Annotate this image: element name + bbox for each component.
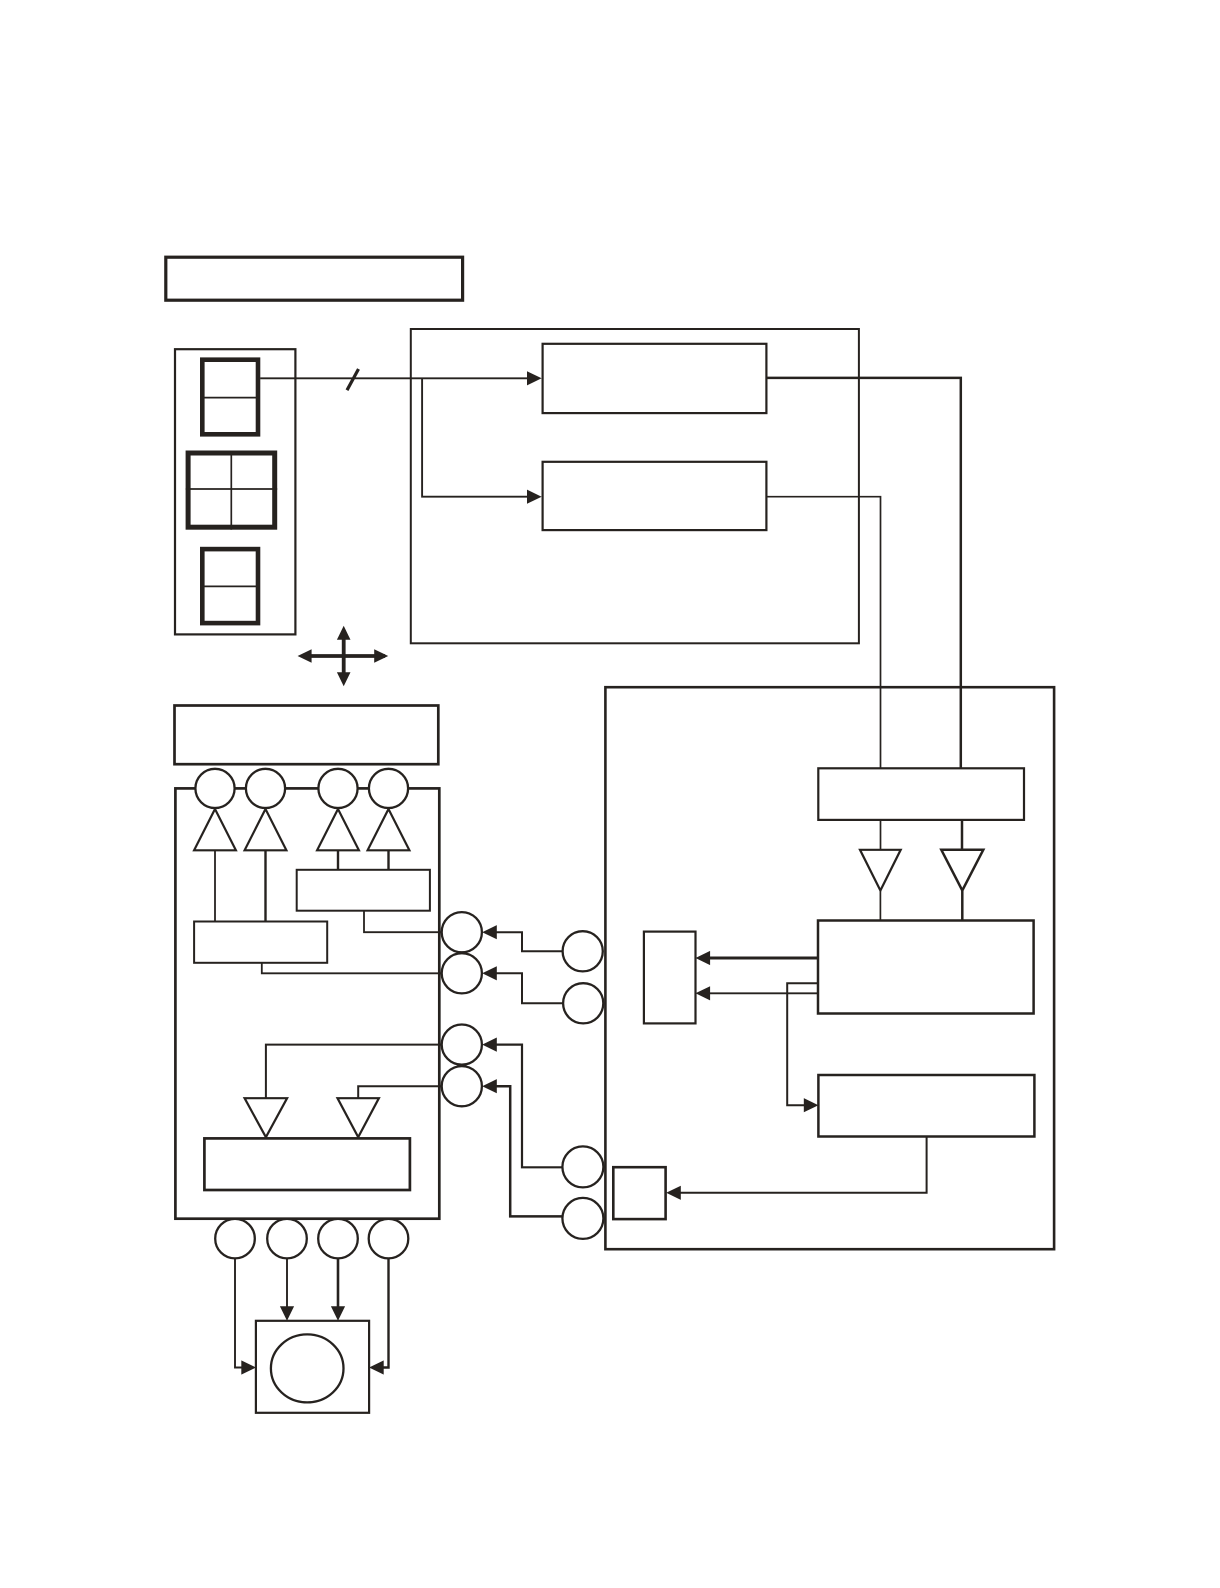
wire top rect to buffer L <box>880 820 882 850</box>
wire buffer R to middle rect <box>961 891 964 921</box>
right small rect <box>644 932 696 1024</box>
top port circle 3 <box>318 769 357 808</box>
arrowhead into lower rect <box>804 1098 819 1112</box>
thin wire middle rect to small rect <box>708 992 818 994</box>
connector wire port r3 to mid circle C <box>496 1045 563 1168</box>
inner register rect 2 <box>543 462 767 530</box>
mid circle D <box>562 1198 603 1239</box>
title box <box>166 257 463 300</box>
thick wire middle rect to small rect <box>708 957 818 960</box>
right port circle r1 <box>442 912 482 952</box>
connector wire port r4 to mid circle D <box>496 1086 563 1216</box>
mid circle C <box>562 1146 603 1187</box>
motor box <box>256 1321 369 1413</box>
buffer triangle R <box>941 850 983 891</box>
motor circle <box>271 1334 344 1402</box>
bus slash mark <box>347 369 359 390</box>
wire bottom circle2 down <box>286 1258 288 1307</box>
top port circle 4 <box>369 769 408 808</box>
right middle rect <box>818 921 1034 1014</box>
display unit 1 <box>202 360 258 435</box>
bottom port circle 4 <box>369 1219 409 1259</box>
top controller box <box>411 329 859 643</box>
feedback wire middle rect to lower rect <box>787 983 818 1105</box>
branch wire to rect 2 <box>422 378 528 496</box>
arrowhead into port r3 <box>482 1038 497 1052</box>
driver triangle 3 <box>317 809 359 850</box>
display unit 2 horizontal divider <box>186 488 278 490</box>
arrowhead into bottom small box <box>666 1186 681 1200</box>
bus wire display to top box <box>260 377 528 379</box>
top port circle 1 <box>195 769 234 808</box>
rect A mid-left latch <box>194 922 327 963</box>
wire triangle3 to rect B <box>337 850 339 870</box>
top port circle 2 <box>246 769 285 808</box>
wire rectA to port circle r2 <box>262 963 442 974</box>
arrowhead into small rect upper <box>696 951 711 965</box>
wire rectB to port circle r1 <box>364 911 442 933</box>
buffer triangle L <box>860 850 901 891</box>
arrowhead into motor left <box>241 1360 256 1374</box>
driver triangle 1 <box>194 809 236 850</box>
inner register rect 1 <box>543 344 767 413</box>
driver triangle 2 <box>245 809 287 850</box>
display unit 3 <box>202 549 258 623</box>
bottom port circle 2 <box>267 1219 307 1259</box>
wire rect1 to right block <box>766 378 960 768</box>
arrowhead circle2 into motor top <box>280 1306 294 1321</box>
pan 4-way arrow <box>302 630 385 682</box>
wire buffer L to middle rect <box>879 891 881 921</box>
lower driver triangle R <box>338 1098 379 1137</box>
wire triangle4 to rect B <box>387 850 389 870</box>
wire triangle1 to rect A <box>214 850 216 921</box>
lower driver triangle L <box>245 1098 288 1137</box>
display unit 3 divider <box>200 585 260 587</box>
display panel container <box>175 349 295 634</box>
wire bottom circle4 to motor right <box>382 1258 389 1367</box>
wire bottom circle1 to motor left <box>235 1258 242 1367</box>
arrowhead into motor right <box>369 1360 384 1374</box>
display unit 2 vertical divider <box>230 451 232 530</box>
display unit 1 divider <box>200 397 260 399</box>
bus wire arrowhead <box>527 371 542 385</box>
right port circle r2 <box>442 953 482 993</box>
rect B upper-right latch <box>297 870 430 911</box>
driver triangle 4 <box>368 809 410 850</box>
left main box <box>175 788 439 1218</box>
wire circle r4 to lower triangle R <box>358 1086 441 1098</box>
wire top rect to buffer R <box>961 820 964 850</box>
arrowhead into port r1 <box>482 925 497 939</box>
wire bottom circle3 down <box>337 1258 340 1307</box>
right bottom small box <box>613 1167 665 1219</box>
bottom port circle 1 <box>215 1219 255 1259</box>
bottom latch rect <box>204 1138 410 1190</box>
right top rect <box>818 768 1024 820</box>
right main box <box>605 687 1054 1249</box>
arrowhead into port r4 <box>482 1079 497 1093</box>
wire circle r3 to lower triangle L <box>266 1045 442 1099</box>
bottom port circle 3 <box>318 1219 358 1259</box>
right lower rect <box>818 1075 1034 1137</box>
branch wire arrowhead <box>527 490 542 504</box>
display unit 2 <box>188 453 275 527</box>
wire lower rect to bottom small box <box>680 1137 927 1193</box>
mid circle B <box>563 983 603 1023</box>
connector wire port r2 to mid circle B <box>496 973 563 1003</box>
right port circle r4 <box>442 1066 482 1106</box>
wire triangle2 to rect A <box>264 850 266 921</box>
left header rect <box>175 706 439 765</box>
arrowhead circle3 into motor top <box>331 1306 345 1321</box>
mid circle A <box>563 931 603 971</box>
right port circle r3 <box>442 1025 482 1065</box>
wire rect2 to right block <box>766 497 880 769</box>
arrowhead into port r2 <box>482 966 497 980</box>
connector wire port r1 to mid circle A <box>496 932 562 951</box>
arrowhead into small rect lower <box>696 986 711 1000</box>
